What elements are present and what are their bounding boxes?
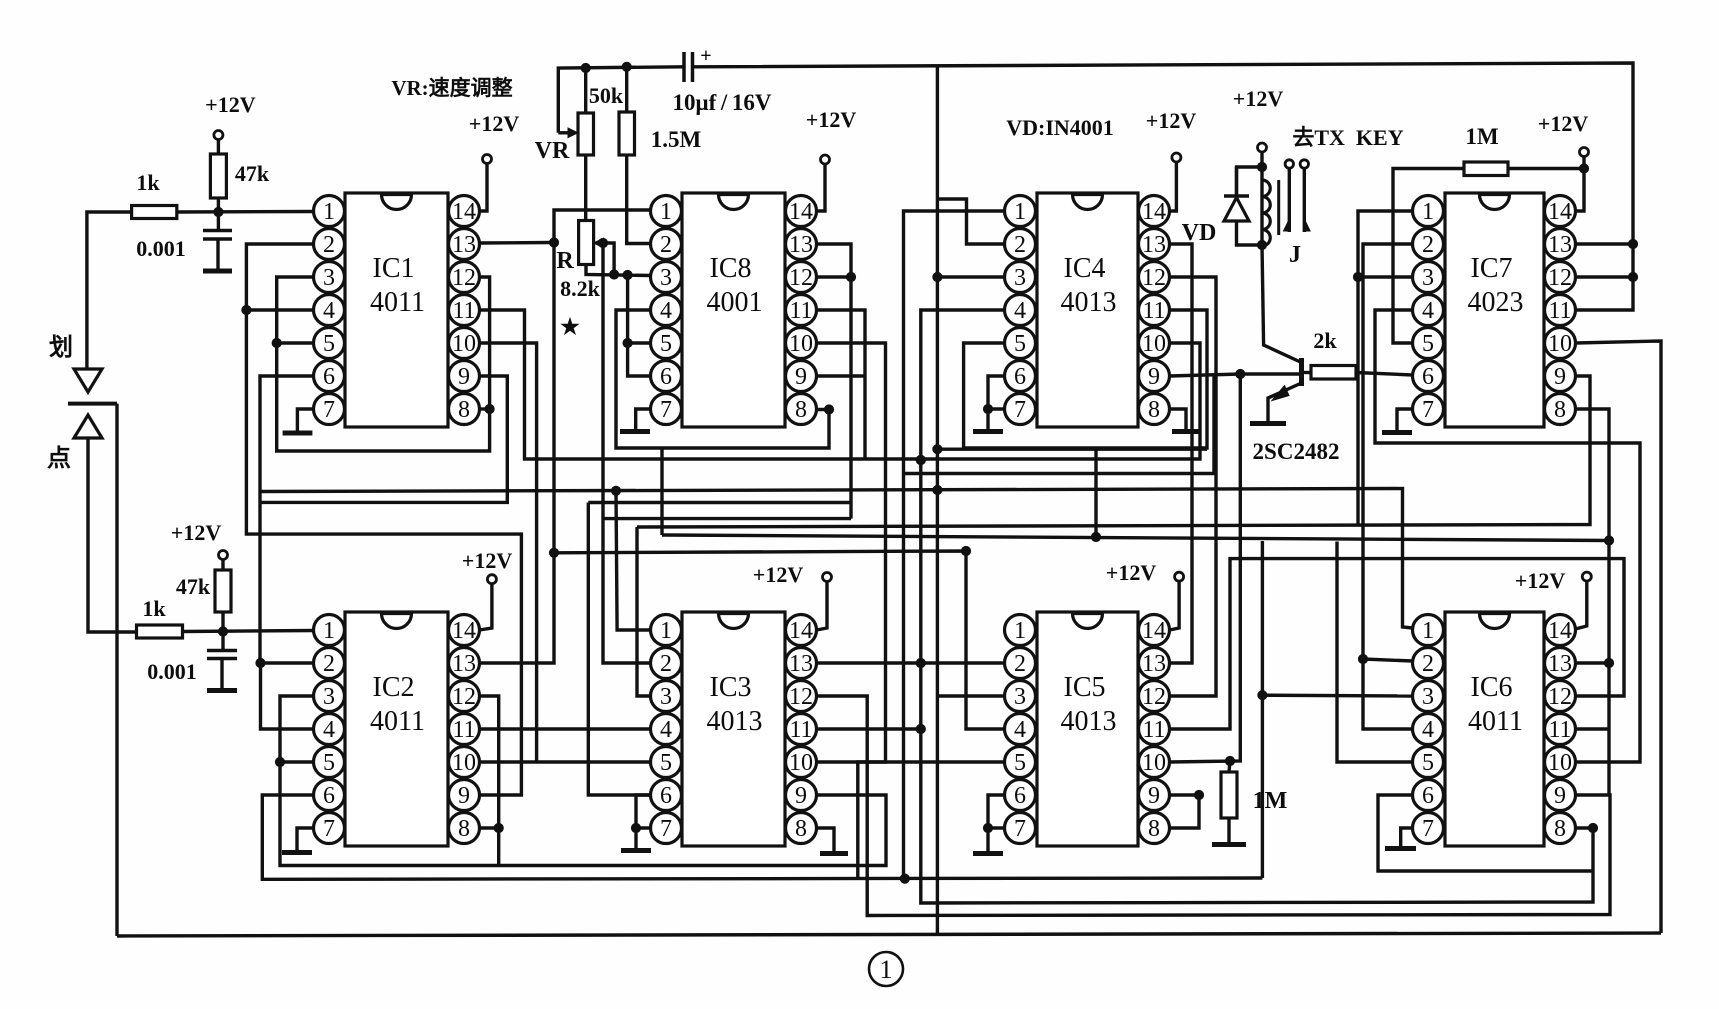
wire R bottom to IC8 pin3 [586,265,651,276]
wire IC7 pin12 stub [1576,275,1634,278]
svg-text:9: 9 [458,783,470,809]
node busY552 IC5 leg [961,546,970,555]
svg-text:13: 13 [452,651,476,677]
IC6 pin 8 [1545,813,1576,844]
wire H2 left leg to IC8 box [660,448,663,535]
IC5 pin 7 [1005,813,1036,844]
wire busY552 to IC5 pin4 [554,551,1005,729]
wire IC4 pin5 under-box to pin11 [964,310,1207,448]
node IC7 pin13 on rail leg [1628,239,1637,248]
svg-text:4001: 4001 [707,287,763,318]
svg-text:5: 5 [323,331,335,357]
wire IC7 pin1 leg [1358,211,1413,526]
IC1 pin 12 [449,262,480,293]
IC4 pin 10 [1139,328,1170,359]
IC IC3 4013 body [682,612,785,846]
svg-text:4: 4 [323,298,335,324]
svg-text:划: 划 [49,334,73,361]
svg-text:2SC2482: 2SC2482 [1253,439,1340,464]
svg-text:11: 11 [452,298,475,324]
wire +12V to IC8 pin14 [817,164,826,211]
wire IC2 pin10 to IC3 pin5 [480,760,651,763]
+12V terminal IC6 [1582,572,1591,581]
svg-text:+12V: +12V [1146,108,1197,133]
svg-text:7: 7 [323,816,335,842]
svg-text:6: 6 [1014,783,1026,809]
wire IC4 pin8 ground stub [1170,409,1187,429]
svg-text:12: 12 [452,265,476,291]
ground IC3 pin8 [820,851,848,856]
node VR top [581,63,590,72]
svg-text:13: 13 [1548,232,1572,258]
ground IC6 pin7 wire [1401,828,1413,846]
wire IC4 pin3 stub [937,275,1004,278]
svg-text:3: 3 [1014,684,1026,710]
node 1.5M top [622,62,631,71]
wire IC1 pin5 stub [277,341,314,344]
svg-text:8: 8 [1554,816,1566,842]
IC4 pin 7 [1005,394,1036,425]
potentiometer VR 50k [568,128,578,138]
IC7 pin 12 [1545,262,1576,293]
IC2 pin 10 [449,747,480,778]
node 1k/47k junction [214,207,223,216]
IC8 pin 7 [651,394,682,425]
svg-text:14: 14 [1548,199,1572,225]
wire IC2 pin2 stub [261,661,314,664]
svg-text:5: 5 [1014,750,1026,776]
svg-text:+12V: +12V [171,520,222,545]
svg-text:13: 13 [1142,232,1166,258]
svg-text:4013: 4013 [1061,287,1117,318]
wire 1k to IC1 pin 1 [177,210,314,214]
wire IC7 pin13 stub [1576,242,1634,245]
svg-text:4: 4 [1422,298,1434,324]
ground IC7 pin7 wire [1397,409,1413,430]
IC6 pin 4 [1413,714,1444,745]
IC8 pin 5 [651,328,682,359]
wire 47k to node [217,198,220,212]
node IC6 pin2 branch [1358,654,1367,663]
IC IC1 4011 body [345,193,448,427]
transistor Q1 2SC2482 base bar [1299,358,1304,386]
svg-text:9: 9 [458,364,470,390]
svg-text:14: 14 [452,618,476,644]
svg-text:IC6: IC6 [1471,672,1513,703]
svg-text:10: 10 [452,331,476,357]
node IC1 pin8 junction [485,404,494,413]
IC1 pin 6 [314,361,345,392]
+12V terminal for 47k R3 [219,551,228,560]
svg-text:5: 5 [323,750,335,776]
wire +12V to IC2 pin14 [480,584,492,630]
svg-text:2: 2 [1014,232,1026,258]
wire TX KEY contact 1 [1288,168,1291,232]
svg-text:去TX KEY: 去TX KEY [1292,125,1403,150]
IC1 pin 7 [314,394,345,425]
svg-text:11: 11 [1142,298,1165,324]
IC5 pin 3 [1005,681,1036,712]
IC IC2 4011 body [345,612,448,846]
IC IC6 4011 body [1445,612,1544,846]
ground 1M [1212,842,1246,847]
IC4 pin 9 [1139,361,1170,392]
IC4 pin 8 [1139,394,1170,425]
IC6 pin 5 [1413,747,1444,778]
IC4 pin 11 [1139,295,1170,326]
IC6 pin 12 [1545,681,1576,712]
svg-text:7: 7 [1422,397,1434,423]
svg-text:VD:IN4001: VD:IN4001 [1006,115,1114,140]
svg-text:13: 13 [789,651,813,677]
IC4 pin 6 [1005,361,1036,392]
capacitor C1 0.001 [217,212,220,231]
wire IC1 pin10 to IC2 pin10 / IC3 pin5 tee [480,343,537,762]
svg-text:9: 9 [1554,364,1566,390]
svg-text:1: 1 [1014,199,1026,225]
wire IC6 pin3 stub [1262,694,1412,698]
svg-text:4011: 4011 [370,287,425,318]
svg-text:点: 点 [47,445,71,472]
wire IC8 pin13 leg [817,244,852,519]
wire IC8 pin12 stub [817,275,852,278]
svg-text:1: 1 [880,955,893,984]
ground IC5 [986,828,989,851]
+12V terminal IC1 [483,155,492,164]
svg-text:IC1: IC1 [373,253,415,284]
svg-text:+12V: +12V [1106,560,1157,585]
IC3 pin 6 [651,780,682,811]
IC IC8 4001 body [682,193,785,427]
wire 1M left to IC7 pin5 [1393,169,1464,344]
svg-text:3: 3 [660,265,672,291]
wire IC7 pin2 leg down [1363,244,1413,729]
IC4 pin 1 [1005,196,1036,227]
node relay bottom [1257,240,1266,249]
svg-text:1: 1 [323,618,335,644]
wire top rail right segment [693,63,1634,310]
relay loop left side [1237,167,1263,245]
wire IC4 pin6/pin7 gnd [988,376,1005,409]
IC8 pin 6 [651,361,682,392]
IC8 pin 9 [786,361,817,392]
wire to IC2 pin4 [261,663,314,729]
IC IC7 4023 body [1445,193,1544,427]
wire center divider [936,65,939,936]
svg-text:4: 4 [660,717,672,743]
svg-text:12: 12 [1142,684,1166,710]
svg-text:1: 1 [660,618,672,644]
wire key bar down left border [115,404,118,936]
node IC3 pin7 [631,823,640,832]
IC2 pin 5 [314,747,345,778]
node 1k/47k junction IC2 [218,627,227,636]
wire IC4 pin2 to divider [937,199,1004,244]
IC2 pin 7 [314,813,345,844]
ground transistor [1250,421,1286,426]
svg-text:10: 10 [452,750,476,776]
wire y518 link to R wiper leg [603,517,851,520]
resistor 1M bottom [1221,772,1237,818]
node pin4leg/IC3 pin13 line [916,658,925,667]
svg-text:+12V: +12V [462,548,513,573]
svg-text:+: + [700,45,711,67]
IC6 pin 1 [1413,615,1444,646]
ground IC4 [986,409,989,429]
ground IC4 pin8 [1172,429,1200,434]
IC7 pin 14 [1545,196,1576,227]
wire base branch [1240,372,1299,375]
svg-text:5: 5 [1014,331,1026,357]
wire 1.5M top to rail [625,67,628,112]
svg-text:1: 1 [660,199,672,225]
IC3 pin 13 [786,648,817,679]
IC2 pin 6 [314,780,345,811]
ground IC1 [283,431,313,436]
svg-text:IC7: IC7 [1471,253,1513,284]
IC3 pin 3 [651,681,682,712]
svg-text:11: 11 [1142,717,1165,743]
IC5 pin 14 [1139,615,1170,646]
svg-text:50k: 50k [589,83,624,108]
IC3 pin 8 [786,813,817,844]
svg-text:10: 10 [789,750,813,776]
wire IC2 pin11 to IC3 pin4 [480,727,651,730]
svg-text:1: 1 [1422,618,1434,644]
svg-text:14: 14 [1142,199,1166,225]
svg-text:9: 9 [1554,783,1566,809]
svg-text:8: 8 [1148,397,1160,423]
svg-text:4: 4 [1014,717,1026,743]
IC IC5 4013 body [1037,612,1138,846]
svg-text:2: 2 [1422,232,1434,258]
svg-text:4013: 4013 [707,706,763,737]
wire IC7 pin3 stub [1358,275,1413,278]
wire IC6 pin11 stub [1576,727,1610,730]
wire H2: IC8 box to IC7 pin8 chain [662,535,1609,541]
+12V terminal IC4 [1172,153,1181,162]
resistor 2k [1311,366,1356,380]
wire IC6 pin2 stub [1363,659,1413,661]
node IC5 pin7 [983,823,992,832]
wire IC2 pin5 stub [280,760,314,763]
node IC8 pin5 [623,338,632,347]
key dash contact (triangle) [74,369,102,392]
svg-text:8: 8 [1554,397,1566,423]
svg-text:3: 3 [1014,265,1026,291]
IC3 pin 4 [651,714,682,745]
IC2 pin 9 [449,780,480,811]
wire IC1 pin2/pin4 to IC2 pin9 bus [246,244,521,795]
svg-text:2: 2 [323,651,335,677]
svg-text:0.001: 0.001 [147,659,197,684]
IC7 pin 8 [1545,394,1576,425]
svg-text:4011: 4011 [1468,706,1523,737]
IC8 pin 8 [786,394,817,425]
IC2 pin 12 [449,681,480,712]
node IC7 pin3 [1353,272,1362,281]
capacitor C2 0.001 [221,632,224,651]
IC7 pin 7 [1413,394,1444,425]
IC3 pin 10 [786,747,817,778]
IC2 pin 2 [314,648,345,679]
svg-text:4: 4 [1014,298,1026,324]
wire IC1 pin13 to vertical 554 [480,241,555,245]
node bus A / center divider [933,485,942,494]
resistor R4 1k [137,625,183,638]
node IC4 pin3 on divider [933,272,942,281]
IC7 pin 3 [1413,262,1444,293]
IC6 pin 7 [1413,813,1444,844]
node pin4leg/y459 [916,455,925,464]
ground IC6 [1385,846,1416,851]
wire IC3 pin6/pin7 gnd [636,795,651,828]
wire IC4 pin12 to IC5 pin12 [1170,277,1217,696]
node IC6 pin8 [1588,823,1597,832]
TX KEY terminal 2 [1300,160,1308,168]
svg-text:6: 6 [1422,364,1434,390]
svg-text:+12V: +12V [806,107,857,132]
node IC4 pin9 branch [1236,369,1245,378]
IC4 pin 12 [1139,262,1170,293]
wire 1M top [1229,761,1230,772]
wire H2 leg to IC6 pin5 [1337,542,1413,763]
svg-text:2: 2 [660,232,672,258]
wire IC8 pins13/12 to IC3 pin6 loop [588,501,851,504]
node IC5 pin9 [1194,790,1203,799]
IC8 pin 12 [786,262,817,293]
IC7 pin 5 [1413,328,1444,359]
IC2 pin 8 [449,813,480,844]
wire y473 link [904,374,1215,474]
IC7 pin 2 [1413,229,1444,260]
wire +12V to IC4 pin14 [1170,162,1177,211]
wire R wiper to IC3 pin2 [603,243,651,663]
wire IC1 pin4 stub [246,308,313,311]
IC6 pin 9 [1545,780,1576,811]
IC5 pin 13 [1139,648,1170,679]
wire 1M bottom [1227,818,1230,842]
IC2 pin 13 [449,648,480,679]
wire IC5 pin3 stub [937,694,1004,697]
wire IC3 pin3 riser [637,527,651,696]
wire +12V to IC3 pin14 [817,582,828,631]
wire IC3 pin6 riser [588,503,650,796]
svg-text:2: 2 [660,651,672,677]
svg-text:+12V: +12V [205,92,256,117]
IC3 pin 12 [786,681,817,712]
svg-text:IC3: IC3 [710,672,752,703]
capacitor C3 10uF/16V [682,52,686,82]
key dot contact (triangle) [74,415,102,438]
svg-text:6: 6 [323,364,335,390]
IC IC4 4013 body [1037,193,1138,427]
svg-text:+12V: +12V [1233,86,1284,111]
IC1 pin 11 [449,295,480,326]
svg-text:5: 5 [660,331,672,357]
node IC6 pin13 on leg [1604,658,1613,667]
IC4 pin 5 [1005,328,1036,359]
IC7 pin 10 [1545,328,1576,359]
svg-text:8.2k: 8.2k [560,276,601,301]
wire IC8 pin11/pin9 leg to y459 [817,310,866,459]
svg-text:+12V: +12V [1515,568,1566,593]
svg-text:9: 9 [795,783,807,809]
+12V terminal relay [1258,143,1267,152]
svg-text:12: 12 [1548,684,1572,710]
svg-text:14: 14 [789,618,813,644]
svg-text:13: 13 [452,232,476,258]
IC8 pin 11 [786,295,817,326]
wire IC6 pin13 stub [1576,661,1610,664]
wire 2k to IC7 pin6 [1356,373,1413,376]
+12V terminal IC2 [487,575,496,584]
svg-text:8: 8 [458,816,470,842]
svg-text:13: 13 [1548,651,1572,677]
IC3 pin 7 [651,813,682,844]
ground IC8 [620,429,650,434]
resistor R2 1k [132,206,177,219]
ground IC2 [282,850,312,855]
wire IC6 pin6 under-box [1378,795,1593,871]
svg-text:5: 5 [1422,750,1434,776]
IC3 pin 5 [651,747,682,778]
svg-text:3: 3 [1422,684,1434,710]
IC4 pin 2 [1005,229,1036,260]
+12V terminal IC8 [821,155,830,164]
wire +12V to relay [1260,152,1263,167]
node R bottom wiper join [610,270,619,279]
wire H2 leg to IC4 box [1094,448,1097,537]
svg-text:★: ★ [560,314,580,339]
wire IC8 pin4 under-box [616,310,829,448]
svg-text:11: 11 [452,717,475,743]
IC8 pin 10 [786,328,817,359]
svg-text:6: 6 [323,783,335,809]
svg-text:1: 1 [323,199,335,225]
resistor R1 47k [210,154,226,198]
IC1 pin 13 [449,229,480,260]
wire IC1 pin3/pin5 under-box to pin12 [277,277,490,451]
IC5 pin 9 [1139,780,1170,811]
svg-text:2k: 2k [1313,328,1337,353]
node IC4 pin7 [983,404,992,413]
IC7 pin 4 [1413,295,1444,326]
svg-text:1k: 1k [136,170,160,195]
svg-text:11: 11 [1548,298,1571,324]
svg-text:2: 2 [323,232,335,258]
wire key to 1k [87,212,132,368]
svg-text:47k: 47k [235,161,270,186]
svg-text:7: 7 [1014,816,1026,842]
IC8 pin 2 [651,229,682,260]
wire relay to transistor collector [1262,245,1302,363]
node pin4leg/IC3 pin11 [916,724,925,733]
ground IC2 pin7 wire [297,828,314,850]
svg-text:2: 2 [1014,651,1026,677]
svg-text:14: 14 [789,199,813,225]
svg-text:12: 12 [1548,265,1572,291]
svg-text:9: 9 [795,364,807,390]
wire IC7 pin4 under-box to IC6 pin10 [1375,310,1640,762]
svg-text:3: 3 [660,684,672,710]
IC7 pin 13 [1545,229,1576,260]
wire bottom border [117,933,1661,936]
svg-text:7: 7 [660,816,672,842]
IC1 pin 4 [314,295,345,326]
node IC1 pin13 junction [549,238,558,247]
node relay top [1257,162,1266,171]
